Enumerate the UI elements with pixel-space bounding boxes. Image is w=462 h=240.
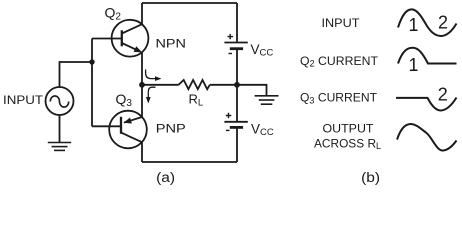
svg-text:INPUT: INPUT: [322, 16, 361, 30]
svg-text:(b): (b): [361, 170, 380, 185]
wire Q2 emitter to node: [141, 52, 143, 84]
ac source (INPUT): [46, 87, 74, 115]
svg-text:(a): (a): [156, 170, 175, 185]
svg-text:INPUT: INPUT: [3, 93, 44, 107]
svg-text:2: 2: [438, 84, 448, 104]
wire node to Q3 emitter: [141, 85, 143, 117]
wire bottom rail: [142, 161, 237, 163]
svg-text:Q3: Q3: [116, 91, 133, 109]
wire input source to base bus: [60, 62, 93, 87]
waveform output full sine: [397, 124, 457, 151]
wire node to battery 2: [236, 85, 238, 122]
svg-text:RL: RL: [189, 92, 204, 109]
wire Q3 collector to bottom rail: [141, 142, 143, 162]
label OUTPUT ACROSS R_L: [314, 122, 381, 152]
svg-text:VCC: VCC: [251, 121, 274, 138]
wire base bus vertical: [91, 39, 93, 127]
wire top-left vertical to Q2 collector: [141, 3, 143, 24]
wire source to ground: [59, 115, 61, 142]
battery B1 (upper V_CC): [224, 34, 247, 54]
ground right: [255, 96, 279, 104]
ground input: [48, 143, 71, 151]
svg-text:1: 1: [408, 55, 418, 75]
wire node to resistor left: [142, 84, 179, 86]
svg-text:OUTPUT: OUTPUT: [323, 122, 375, 136]
resistor R_L: [179, 80, 210, 89]
current arrow upper (Q2 current direction): [146, 70, 162, 82]
svg-text:NPN: NPN: [156, 36, 187, 50]
waveform Q3 current (flat then negative half sine): [396, 98, 457, 111]
wire bottom-right vertical to battery 2: [236, 128, 238, 162]
transistor Q3 (PNP): [92, 111, 147, 149]
svg-text:1: 1: [408, 15, 418, 35]
node center junction: [139, 82, 145, 88]
svg-text:Q2 CURRENT: Q2 CURRENT: [300, 54, 379, 69]
svg-text:Q2: Q2: [105, 5, 122, 23]
wire top-right vertical to battery 1: [236, 3, 238, 42]
node base junction: [89, 59, 94, 64]
wire resistor right to node: [210, 84, 237, 86]
battery B2 (lower V_CC): [224, 113, 247, 131]
wire node to right ground: [237, 85, 267, 95]
svg-text:2: 2: [438, 12, 448, 32]
svg-text:PNP: PNP: [156, 121, 186, 135]
svg-text:VCC: VCC: [251, 42, 274, 59]
wire top rail: [142, 2, 237, 4]
waveform input sine: [398, 9, 457, 36]
transistor Q2 (NPN): [92, 20, 148, 57]
svg-text:Q3 CURRENT: Q3 CURRENT: [300, 91, 378, 106]
svg-text:ACROSS RL: ACROSS RL: [314, 136, 381, 151]
node output junction: [234, 82, 240, 88]
current arrow lower (Q3 current direction): [146, 87, 156, 103]
waveform Q2 current (half sine then flat): [398, 48, 457, 64]
wire battery 1 to node: [236, 49, 238, 85]
